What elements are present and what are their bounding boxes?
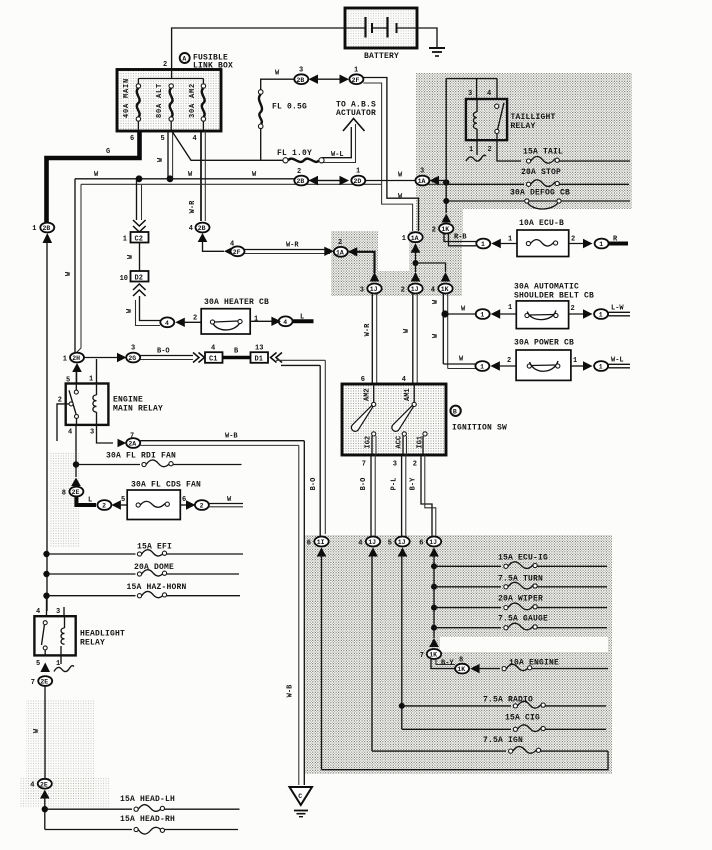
- fuse 15A TAIL: [523, 148, 630, 164]
- switch (ignition SW): [342, 384, 446, 455]
- fuse 10A ENGINE: [478, 659, 608, 671]
- arrow (to ABS actuator, open): [343, 119, 365, 132]
- svg-text:2: 2: [58, 397, 62, 405]
- taillight relay top bus: [446, 78, 497, 80]
- svg-text:2H: 2H: [72, 355, 80, 362]
- ground (battery): [429, 48, 445, 56]
- wire branch to 1K pin4: [416, 263, 446, 272]
- svg-text:2: 2: [200, 503, 204, 510]
- wire 1J pin6 column down: [433, 555, 435, 638]
- svg-text:1: 1: [356, 168, 360, 176]
- arrow into 1K pin8: [470, 664, 480, 673]
- svg-text:W-L: W-L: [611, 357, 624, 365]
- wire W-R double to 1A: [245, 249, 331, 251]
- connector 1A pin3: [415, 168, 429, 186]
- arrow into 1J pin6 from below: [429, 548, 439, 557]
- svg-text:W: W: [127, 254, 135, 259]
- svg-text:1A: 1A: [411, 235, 419, 242]
- svg-text:4: 4: [358, 539, 362, 547]
- svg-text:15A HAZ-HORN: 15A HAZ-HORN: [127, 583, 187, 592]
- svg-text:FL 1.0Y: FL 1.0Y: [277, 149, 312, 158]
- wire C2 column (double): [136, 180, 138, 220]
- svg-text:1: 1: [508, 304, 512, 312]
- svg-text:R-B: R-B: [454, 234, 467, 242]
- svg-text:30A AM2: 30A AM2: [189, 83, 197, 118]
- connector C2 pin1: [123, 232, 149, 244]
- arrow into 2E pin8: [71, 478, 81, 487]
- wire W-B column down to ground C (double): [303, 441, 305, 785]
- svg-text:2A: 2A: [128, 441, 136, 448]
- battery B1: [345, 8, 417, 61]
- wire FL0.5G bottom to FL1.0Y: [261, 129, 283, 161]
- svg-text:7: 7: [420, 652, 424, 660]
- connector 2D pin1: [351, 168, 365, 186]
- connector C1 pin4: [205, 345, 223, 364]
- connector 1J pin4: [358, 537, 380, 548]
- fuse 30A FL CDS FAN: [127, 490, 180, 520]
- wire corner to 3 1J (bold): [356, 252, 375, 273]
- svg-text:5: 5: [388, 539, 392, 547]
- wire diagonal ALT to FL 1.0Y row: [171, 130, 260, 160]
- svg-text:D1: D1: [255, 356, 263, 364]
- svg-text:B-O: B-O: [310, 478, 318, 491]
- svg-text:4: 4: [30, 782, 34, 790]
- svg-text:2B: 2B: [297, 77, 305, 84]
- svg-text:ENGINE: ENGINE: [113, 396, 143, 405]
- svg-text:2: 2: [193, 315, 197, 323]
- svg-text:1: 1: [254, 316, 258, 324]
- arrow into 1A pin2 from right: [348, 247, 358, 256]
- svg-text:W: W: [227, 496, 232, 504]
- svg-text:2: 2: [163, 61, 167, 69]
- svg-text:1: 1: [508, 236, 512, 244]
- arrow into ECU-B left: [491, 239, 501, 248]
- wire 2H to relay pin5: [76, 371, 78, 384]
- svg-text:W: W: [126, 308, 134, 313]
- junction (C2 column / W bus): [136, 175, 143, 182]
- wire pin4 pair down to 2B pin4: [189, 131, 205, 221]
- shaded region (1A/1J/1K connector cluster): [331, 231, 462, 296]
- wire W bus left corner down to 2H (double): [74, 179, 76, 352]
- svg-text:2: 2: [338, 239, 342, 247]
- connector 1J pin6: [419, 537, 441, 548]
- svg-text:5: 5: [36, 660, 40, 668]
- svg-text:7.5A RADIO: 7.5A RADIO: [483, 696, 533, 705]
- arrow into 2H from below: [72, 363, 82, 372]
- relay (taillight): [466, 99, 507, 140]
- wire 1I pin6 column up (double B-O from D1 row): [319, 365, 321, 537]
- svg-text:1: 1: [573, 357, 577, 365]
- wire 1K column corner into power row (double): [443, 363, 476, 365]
- arrow into 1J pin3: [370, 272, 380, 282]
- svg-text:RELAY: RELAY: [511, 122, 536, 131]
- svg-text:W: W: [157, 157, 165, 162]
- connector 1A pin1: [402, 232, 423, 243]
- svg-text:4: 4: [189, 225, 193, 233]
- svg-text:HEADLIGHT: HEADLIGHT: [80, 630, 125, 639]
- svg-text:2E: 2E: [40, 679, 48, 686]
- circuit breaker 30A DEFOG CB: [446, 189, 630, 210]
- chevron out of D1: [271, 353, 283, 363]
- svg-text:7.5A TURN: 7.5A TURN: [498, 575, 543, 584]
- svg-text:W-R: W-R: [189, 200, 197, 213]
- arrow into 2G: [117, 353, 127, 362]
- svg-text:B-Y: B-Y: [441, 660, 454, 668]
- svg-text:2E: 2E: [72, 489, 80, 496]
- connector 2A pin7: [126, 438, 140, 448]
- svg-text:30A HEATER CB: 30A HEATER CB: [204, 298, 269, 307]
- svg-text:4: 4: [68, 429, 72, 437]
- fusible link 80A ALT: [156, 83, 173, 131]
- wire 2F to A.B.S column (double): [363, 78, 418, 232]
- junction (RDI row): [73, 461, 79, 467]
- svg-text:W: W: [432, 333, 440, 338]
- svg-text:MAIN RELAY: MAIN RELAY: [113, 405, 163, 414]
- svg-text:B-O: B-O: [157, 348, 170, 356]
- arrow into 1I pin6 from below: [317, 548, 327, 557]
- svg-text:15A EFI: 15A EFI: [137, 543, 172, 552]
- connector 1 (power left): [475, 361, 489, 371]
- svg-text:2: 2: [297, 168, 301, 176]
- svg-text:4: 4: [487, 90, 491, 98]
- svg-text:30A FL RDI FAN: 30A FL RDI FAN: [106, 452, 176, 461]
- svg-text:20A DOME: 20A DOME: [134, 563, 174, 572]
- connector 1 (power right): [594, 361, 608, 371]
- wire 1I pin6 column down: [321, 555, 323, 770]
- shaded region (bottom ignition fuse block): [305, 535, 612, 774]
- fuse 20A WIPER: [431, 595, 607, 611]
- svg-text:2D: 2D: [354, 178, 362, 185]
- wire 1K pin4 down (double): [442, 294, 444, 365]
- svg-text:2: 2: [488, 146, 492, 154]
- svg-text:4: 4: [211, 345, 215, 353]
- wire 2E7 down to 2E4: [44, 686, 46, 778]
- svg-text:20A WIPER: 20A WIPER: [498, 595, 543, 604]
- arrow into 4: [175, 318, 185, 327]
- svg-text:1A: 1A: [336, 249, 344, 256]
- svg-text:15A TAIL: 15A TAIL: [523, 148, 563, 157]
- arrow into 1A pin1 from below: [411, 243, 421, 253]
- svg-text:7: 7: [362, 461, 366, 469]
- svg-text:2: 2: [102, 503, 106, 510]
- svg-text:ACTUATOR: ACTUATOR: [336, 109, 376, 118]
- fusible link 30A AM2: [189, 83, 206, 131]
- svg-text:2B: 2B: [198, 225, 206, 232]
- connector 1 (shoulder belt right): [594, 309, 608, 319]
- junction (defog row): [443, 198, 449, 204]
- fuse 7.5A RADIO: [399, 696, 606, 709]
- svg-text:2: 2: [432, 226, 436, 234]
- shaded patch (scan noise near 4 2E): [26, 700, 94, 800]
- svg-text:B-Y: B-Y: [410, 477, 418, 490]
- svg-text:7.5A IGN: 7.5A IGN: [483, 736, 523, 745]
- wire 2E4 down to head fuse rows: [44, 797, 46, 830]
- svg-text:6: 6: [307, 539, 311, 547]
- svg-text:20A STOP: 20A STOP: [521, 168, 561, 177]
- chevron into C1: [193, 353, 205, 363]
- wire 2H row to 2G: [84, 357, 119, 359]
- pigtail (taillight relay pin1): [466, 140, 486, 161]
- connector D2 pin10: [120, 271, 149, 283]
- svg-text:5: 5: [121, 496, 125, 504]
- ground C (triangle): [290, 787, 313, 817]
- svg-text:1: 1: [599, 312, 603, 319]
- wire to shoulder belt CB: [448, 313, 476, 315]
- svg-text:LINK BOX: LINK BOX: [193, 62, 233, 71]
- svg-text:1: 1: [123, 236, 127, 244]
- svg-text:4: 4: [165, 320, 169, 327]
- arrow out of 4: [271, 317, 281, 326]
- arrow into 2A: [118, 439, 127, 448]
- svg-text:FL 0.5G: FL 0.5G: [272, 103, 307, 112]
- svg-text:30A POWER CB: 30A POWER CB: [514, 339, 574, 348]
- svg-text:2: 2: [571, 236, 575, 244]
- svg-text:W: W: [65, 271, 73, 276]
- wire 1J pin2 to ignition AM1 (double W): [412, 294, 414, 385]
- chevron below D2 (up): [133, 284, 146, 296]
- shaded patch (left scan noise near relays): [50, 452, 80, 547]
- fuse 15A EFI: [43, 543, 243, 558]
- svg-text:3: 3: [393, 461, 397, 469]
- connector 2B pin4: [189, 223, 210, 233]
- svg-text:IGNITION SW: IGNITION SW: [452, 424, 507, 433]
- svg-text:2B: 2B: [43, 225, 51, 232]
- arrow pair 2B/2D: [309, 176, 319, 185]
- circuit breaker 30A AUTOMATIC SHOULDER BELT CB: [516, 301, 568, 329]
- arrow into CDS left: [111, 500, 121, 509]
- svg-text:B-O: B-O: [360, 478, 368, 491]
- svg-text:4: 4: [431, 286, 435, 294]
- fuse 7.5A IGN: [372, 736, 608, 753]
- svg-text:L-W: L-W: [611, 305, 624, 313]
- wire 1J pin4 column down: [371, 555, 373, 751]
- fusible link box outline: [117, 70, 221, 132]
- svg-text:1: 1: [89, 376, 93, 384]
- svg-text:6: 6: [419, 539, 423, 547]
- fuse 15A CIG: [402, 714, 606, 732]
- connector 1J pin5: [388, 537, 410, 548]
- connector 1A pin2: [334, 239, 348, 257]
- svg-text:1: 1: [32, 225, 36, 233]
- fusible link FL 0.5G: [258, 90, 307, 129]
- svg-text:7: 7: [31, 679, 35, 687]
- svg-text:1: 1: [354, 67, 358, 75]
- svg-text:C: C: [298, 793, 302, 800]
- connector 1 (ECU-B left): [476, 239, 490, 249]
- svg-text:30A FL CDS FAN: 30A FL CDS FAN: [131, 481, 201, 490]
- fuse 15A HAZ-HORN: [43, 583, 240, 599]
- svg-text:1: 1: [599, 364, 603, 371]
- svg-text:W: W: [252, 171, 257, 179]
- junction (pin5 / W bus): [167, 175, 174, 182]
- connector 1K pin8: [455, 664, 469, 674]
- svg-text:2F: 2F: [233, 249, 241, 256]
- svg-text:A: A: [182, 56, 186, 63]
- svg-text:8: 8: [62, 489, 66, 497]
- svg-text:2: 2: [507, 357, 511, 365]
- wire 1J pin5 column down: [401, 555, 403, 729]
- wire G (thick, 40A MAIN output): [47, 131, 140, 223]
- svg-text:1J: 1J: [398, 539, 406, 546]
- wire 1J pin3 to ignition AM2 (double W-R): [371, 294, 373, 385]
- svg-text:SHOULDER BELT CB: SHOULDER BELT CB: [514, 292, 594, 301]
- connector 1 (ECU-B right): [595, 239, 609, 249]
- svg-text:30A AUTOMATIC: 30A AUTOMATIC: [514, 283, 579, 292]
- svg-text:4: 4: [283, 319, 287, 326]
- svg-text:1: 1: [599, 241, 603, 248]
- svg-text:1: 1: [480, 364, 484, 371]
- wire battery to ground: [417, 28, 437, 47]
- connector 2B pin1 (left): [32, 223, 54, 233]
- arrow into 1J pin4 from below: [368, 548, 378, 557]
- wire pin5 pair down to W bus: [157, 131, 173, 177]
- fuse 7.5A TURN: [431, 575, 607, 590]
- chevron into C2 (down): [133, 220, 146, 232]
- fuse 20A DOME: [43, 563, 239, 577]
- connector 1J pin3: [360, 284, 382, 295]
- svg-text:3: 3: [360, 286, 364, 294]
- svg-text:B: B: [453, 408, 457, 415]
- wire bottom U (IGN row return): [322, 751, 609, 770]
- svg-text:W: W: [94, 171, 99, 179]
- connector 1 (shoulder belt left): [476, 309, 490, 319]
- svg-text:W-R: W-R: [364, 323, 372, 336]
- shaded region (taillight relay / tail-stop-defog fuse block): [416, 73, 632, 209]
- W bus row (double): [75, 178, 294, 180]
- connector 4 (heater right): [279, 316, 293, 326]
- fuse 30A FL RDI FAN: [76, 452, 242, 467]
- svg-text:W: W: [461, 306, 466, 314]
- svg-text:3: 3: [131, 345, 135, 353]
- svg-text:BATTERY: BATTERY: [364, 52, 399, 61]
- svg-text:6: 6: [182, 496, 186, 504]
- svg-text:40A MAIN: 40A MAIN: [123, 78, 131, 118]
- svg-text:1: 1: [469, 146, 473, 154]
- connector 2 (CDS right): [195, 500, 209, 510]
- svg-text:B: B: [234, 348, 239, 356]
- svg-text:1J: 1J: [368, 539, 376, 546]
- connector D1 pin13: [251, 345, 269, 364]
- arrow into 1K pin4: [441, 272, 451, 282]
- svg-text:2G: 2G: [128, 355, 136, 362]
- svg-text:W: W: [432, 299, 440, 304]
- arrow into 1A pin3: [430, 176, 440, 185]
- circuit breaker 30A HEATER CB: [201, 309, 250, 334]
- svg-text:1I: 1I: [317, 539, 325, 546]
- connector 2H pin1: [63, 353, 84, 364]
- connector 2E pin8: [62, 487, 84, 498]
- wire ABS actuator down to W-L (double): [322, 127, 351, 158]
- svg-text:2E: 2E: [40, 781, 48, 788]
- wire battery to fusible link box pin 2: [172, 28, 345, 70]
- svg-text:P-L: P-L: [391, 478, 399, 491]
- svg-text:80A ALT: 80A ALT: [156, 83, 164, 118]
- fusible link 40A MAIN: [123, 78, 141, 131]
- arrow into power left: [490, 361, 500, 370]
- connector 1K pin4: [431, 284, 453, 295]
- svg-text:5: 5: [161, 135, 165, 143]
- arrow into 2E pin7: [40, 663, 50, 673]
- arrow into 1K pin7: [429, 638, 439, 647]
- svg-text:W-R: W-R: [286, 242, 299, 250]
- connector 1K pin7: [420, 649, 441, 660]
- svg-text:1A: 1A: [418, 178, 426, 185]
- wire left bus down from 2B: [46, 243, 48, 611]
- svg-text:C1: C1: [209, 356, 217, 364]
- connector 1I pin6: [307, 537, 329, 548]
- svg-text:7.5A GAUGE: 7.5A GAUGE: [498, 615, 548, 624]
- circuit breaker 30A POWER CB: [516, 350, 571, 380]
- svg-text:W-L: W-L: [331, 151, 344, 159]
- svg-text:W: W: [275, 70, 280, 78]
- svg-text:ACC: ACC: [396, 436, 404, 449]
- svg-text:G: G: [106, 148, 110, 156]
- svg-text:10A ECU-B: 10A ECU-B: [519, 219, 564, 228]
- svg-text:1J: 1J: [429, 539, 437, 546]
- svg-text:3: 3: [56, 608, 60, 616]
- wire C2 to D2: [139, 243, 141, 272]
- svg-text:2: 2: [413, 461, 417, 469]
- junction (shoulder belt tap): [441, 310, 448, 317]
- svg-text:2: 2: [571, 305, 575, 313]
- svg-text:2: 2: [401, 286, 405, 294]
- internal bus wire (fusible link box): [138, 70, 203, 85]
- relay (engine main): [57, 359, 108, 441]
- wire 1K to ECU-B row (R-B): [444, 233, 476, 242]
- svg-text:W-B: W-B: [225, 433, 238, 441]
- svg-text:30A DEFOG CB: 30A DEFOG CB: [510, 189, 570, 198]
- svg-text:IG2: IG2: [365, 436, 373, 449]
- fuse 7.5A GAUGE: [431, 615, 607, 631]
- connector 1J pin2: [401, 284, 423, 295]
- wire B-O to C1 (double): [140, 355, 193, 357]
- connector 2B pin3: [294, 67, 308, 85]
- svg-text:3: 3: [90, 429, 94, 437]
- svg-text:W: W: [398, 172, 403, 180]
- svg-text:4: 4: [36, 608, 40, 616]
- svg-text:W: W: [398, 193, 403, 201]
- svg-text:10: 10: [120, 275, 128, 283]
- arrow pair 2B/2F: [309, 75, 319, 84]
- fuse 20A STOP: [446, 168, 629, 186]
- svg-text:TAILLIGHT: TAILLIGHT: [511, 113, 556, 122]
- svg-text:15A CIG: 15A CIG: [505, 714, 540, 723]
- wire C1 to D1 (bold): [223, 356, 251, 360]
- svg-text:15A HEAD-RH: 15A HEAD-RH: [120, 815, 175, 824]
- svg-text:1: 1: [63, 355, 67, 363]
- fusible link FL 1.0Y: [277, 149, 344, 163]
- svg-text:RELAY: RELAY: [80, 639, 105, 648]
- wire W-B to right column (double): [140, 440, 304, 442]
- wire 1K7 to 1K8 (B-Y jog): [431, 659, 455, 669]
- wire relay pin3 to 2A: [97, 425, 114, 443]
- fuse 15A ECU-IG: [431, 554, 607, 570]
- connector 4 (heater left): [160, 317, 174, 327]
- connector 2F pin4: [231, 246, 245, 256]
- connector 2B pin2: [294, 168, 308, 185]
- svg-text:1K: 1K: [441, 226, 449, 233]
- wire FL0.5G top to 2B pin3: [261, 79, 294, 90]
- svg-text:D2: D2: [135, 274, 143, 282]
- wire relay pin4 down to RDI row: [75, 425, 77, 477]
- svg-text:1: 1: [481, 241, 485, 248]
- svg-text:AM2: AM2: [364, 388, 372, 401]
- svg-text:15A ECU-IG: 15A ECU-IG: [498, 554, 548, 563]
- svg-text:4: 4: [193, 135, 197, 143]
- svg-text:2F: 2F: [352, 77, 360, 84]
- svg-text:13: 13: [255, 345, 263, 353]
- wire D2 down to heater row (double): [140, 296, 161, 321]
